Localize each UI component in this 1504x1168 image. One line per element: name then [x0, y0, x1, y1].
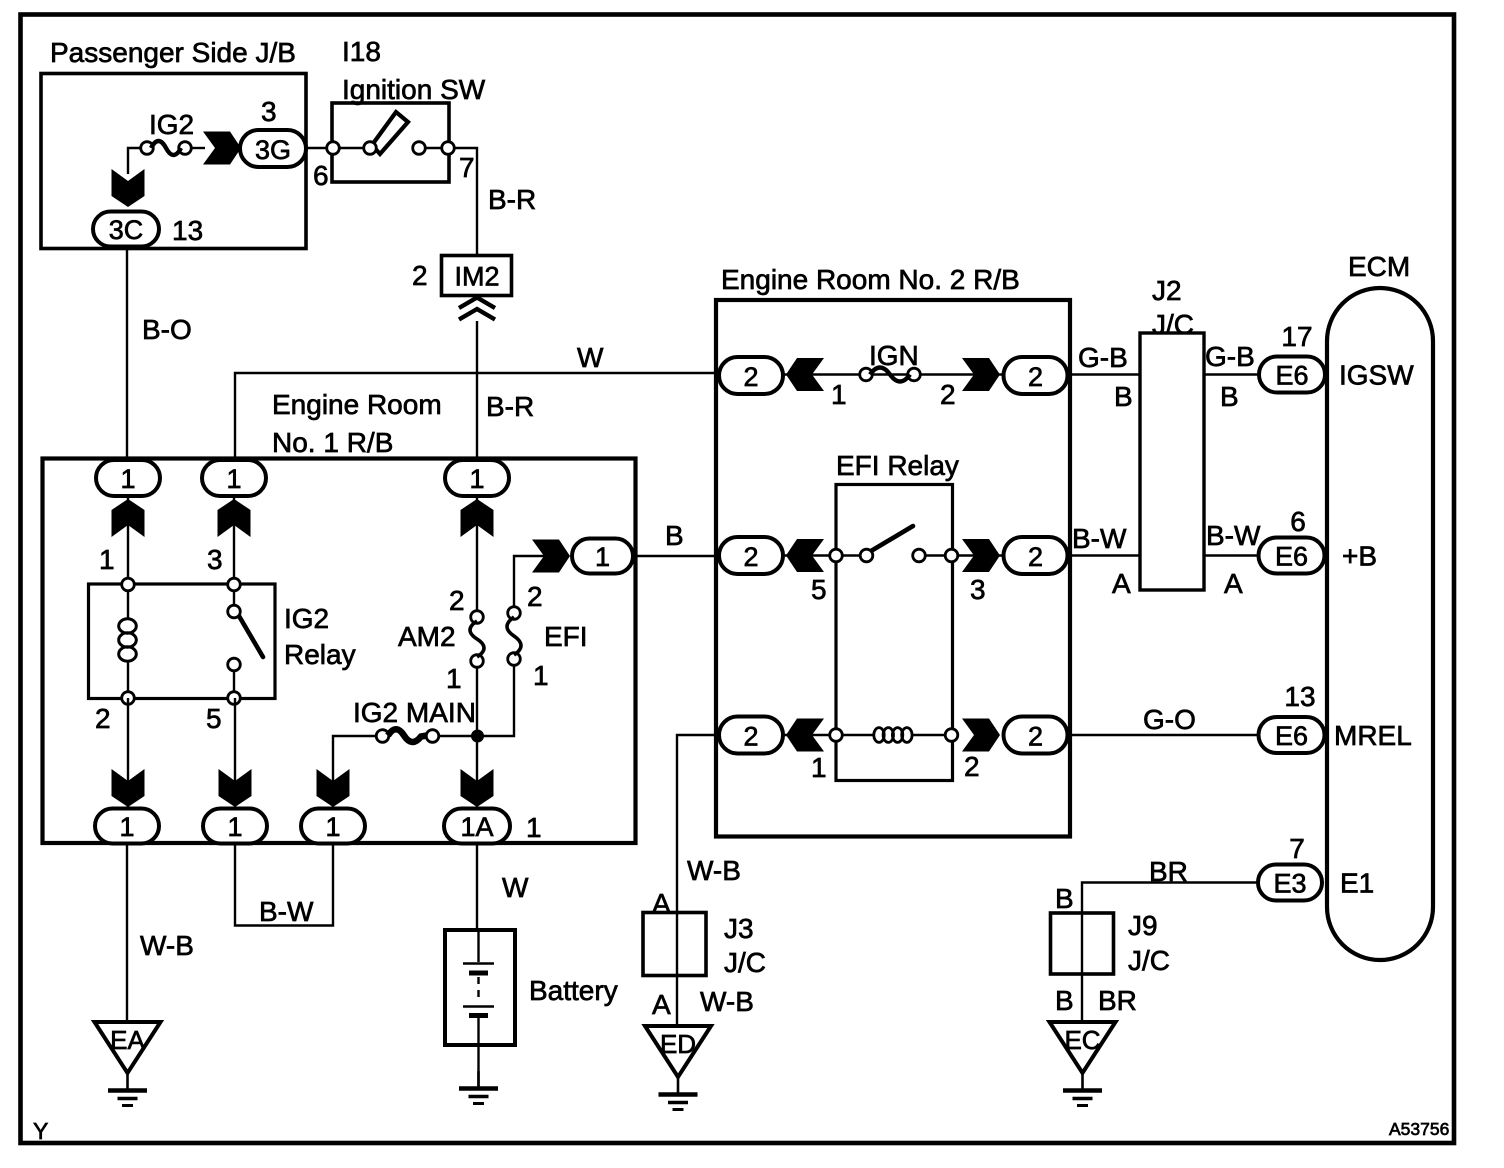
svg-text:ED: ED: [660, 1029, 696, 1059]
arrow down cavity b1: [112, 769, 145, 807]
svg-text:3: 3: [207, 544, 223, 575]
cavity 1 top mid: [202, 460, 266, 496]
arrow up into cavity2: [218, 499, 251, 537]
svg-text:IG2 MAIN: IG2 MAIN: [353, 697, 476, 728]
Engine Room No.1 R/B box: [43, 459, 636, 844]
svg-text:EFI Relay: EFI Relay: [836, 450, 959, 481]
wire relay pin2 down to cavity: [127, 698, 129, 808]
svg-text:1: 1: [227, 812, 242, 842]
arrow up into cavity1: [112, 499, 145, 537]
connector cavity 3C: [93, 212, 159, 247]
arrow left row1: [786, 358, 824, 391]
cavity 1 top left: [96, 460, 160, 496]
svg-text:IM2: IM2: [454, 262, 499, 292]
svg-text:1: 1: [469, 464, 484, 494]
svg-text:W-B: W-B: [687, 855, 741, 886]
cavity 2 row3 right: [1004, 717, 1068, 754]
svg-text:7: 7: [1289, 833, 1305, 864]
relay contact a: [860, 549, 873, 562]
fuse IG2: [141, 142, 154, 155]
terminal E6 MREL: [1259, 717, 1325, 753]
svg-text:3G: 3G: [255, 135, 291, 165]
svg-text:MREL: MREL: [1334, 720, 1412, 751]
wire fuse EFI down to junction: [483, 665, 514, 736]
svg-text:1: 1: [226, 464, 241, 494]
svg-text:E6: E6: [1275, 542, 1308, 572]
wire BR E1 to J9: [1082, 883, 1258, 1027]
svg-text:Engine Room No. 2 R/B: Engine Room No. 2 R/B: [721, 264, 1020, 295]
battery box: [445, 930, 515, 1045]
svg-text:E6: E6: [1275, 361, 1308, 391]
wire W to battery: [476, 844, 478, 930]
wire cavity2 to relay pin3: [233, 496, 235, 586]
arrow down cavity b2: [219, 769, 252, 807]
svg-text:EC: EC: [1064, 1025, 1100, 1055]
arrow left row2: [786, 539, 824, 572]
relay coil wire bottom: [127, 661, 129, 694]
arrow down cavity b3: [317, 769, 350, 807]
svg-text:E1: E1: [1340, 868, 1374, 899]
svg-text:B: B: [665, 520, 684, 551]
svg-text:1: 1: [120, 464, 135, 494]
wire G-O row3 to MREL: [1069, 734, 1260, 736]
cavity 1 right side: [572, 539, 633, 574]
svg-text:E3: E3: [1273, 869, 1306, 899]
wire row1 inside: [783, 373, 1069, 375]
wire W-B to EA: [126, 844, 128, 1022]
svg-text:A53756: A53756: [1389, 1119, 1449, 1139]
connector arrow into 3C: [112, 169, 145, 207]
svg-text:6: 6: [1290, 506, 1306, 537]
cavity 1 top right: [445, 460, 509, 496]
relay contact upper: [228, 605, 241, 618]
svg-text:Relay: Relay: [284, 639, 356, 670]
terminal E6 IGSW: [1259, 357, 1325, 393]
svg-text:B-O: B-O: [142, 314, 192, 345]
wire cavity3 to fuse AM2: [476, 496, 478, 612]
svg-text:5: 5: [811, 574, 827, 605]
svg-text:2: 2: [964, 751, 980, 782]
svg-text:1: 1: [526, 812, 542, 843]
wire row1 to J2: [1069, 373, 1139, 375]
wire fuse to arrow: [191, 147, 205, 149]
svg-text:Ignition SW: Ignition SW: [342, 74, 486, 105]
svg-text:5: 5: [206, 703, 222, 734]
svg-text:+B: +B: [1342, 541, 1377, 572]
svg-text:2: 2: [1028, 721, 1043, 751]
ground ED symbol: [677, 1077, 680, 1093]
ground EA symbol: [126, 1073, 129, 1089]
svg-text:1: 1: [811, 752, 827, 783]
ground EC symbol: [1081, 1073, 1084, 1089]
relay coil IG2: [119, 619, 137, 633]
wire W-B from row3 to J3: [677, 735, 721, 1026]
wire J2 to IGSW: [1204, 373, 1260, 375]
wire J2 to +B: [1204, 554, 1260, 556]
svg-text:1: 1: [595, 542, 610, 572]
arrow right row3: [962, 719, 1000, 752]
svg-text:2: 2: [743, 542, 758, 572]
Engine Room No.2 R/B box: [716, 300, 1070, 837]
svg-text:3C: 3C: [109, 215, 144, 245]
cavity 2 row1 right: [1004, 357, 1068, 394]
svg-text:1: 1: [99, 544, 115, 575]
svg-text:2: 2: [743, 362, 758, 392]
svg-text:2: 2: [449, 585, 465, 616]
cavity 2 row1 left: [719, 357, 783, 394]
wire row3 left: [783, 734, 836, 736]
svg-text:B-W: B-W: [1072, 523, 1127, 554]
svg-text:W-B: W-B: [140, 930, 194, 961]
relay pin2 terminal: [122, 692, 135, 705]
cavity 1 bottom a: [95, 809, 159, 844]
svg-text:I18: I18: [342, 36, 381, 67]
battery internal wire top: [477, 930, 479, 962]
wire IG2 fuse to node down: [128, 148, 147, 174]
svg-text:EFI: EFI: [544, 621, 588, 652]
relay switch wire top: [233, 590, 235, 606]
wire cavity1-right to No2 R/B: [633, 555, 719, 557]
cavity 2 row3 left: [719, 717, 783, 754]
arrow right row1: [962, 358, 1000, 391]
svg-text:BR: BR: [1098, 985, 1137, 1016]
svg-text:B-W: B-W: [1206, 520, 1261, 551]
svg-text:G-B: G-B: [1205, 341, 1255, 372]
arrow right row2: [962, 539, 1000, 572]
svg-text:W-B: W-B: [700, 986, 754, 1017]
connector chevrons below IM2: [459, 298, 495, 320]
junction connector J2 box: [1140, 333, 1204, 590]
ignition switch I18 box: [332, 103, 449, 182]
svg-text:B-R: B-R: [486, 391, 534, 422]
svg-text:2: 2: [940, 379, 956, 410]
svg-text:J2: J2: [1152, 275, 1182, 306]
svg-text:2: 2: [95, 703, 111, 734]
svg-text:W: W: [502, 872, 529, 903]
svg-text:2: 2: [1028, 542, 1043, 572]
svg-text:7: 7: [459, 152, 475, 183]
junction connector J3 box: [643, 913, 706, 976]
svg-text:ECM: ECM: [1348, 251, 1410, 282]
relay coil pin left: [830, 729, 843, 742]
svg-text:17: 17: [1281, 321, 1312, 352]
wire fuse EFI up to arrow: [514, 556, 545, 607]
battery ground symbol: [477, 1071, 480, 1087]
relay pin1 terminal: [122, 578, 135, 591]
arrow into cavity B: [532, 540, 570, 573]
wire fuse AM2 to junction and cavity 1A: [476, 667, 478, 808]
relay contact b: [913, 549, 926, 562]
svg-text:E6: E6: [1275, 721, 1308, 751]
svg-text:2: 2: [412, 260, 428, 291]
svg-text:2: 2: [743, 721, 758, 751]
svg-text:1A: 1A: [460, 812, 493, 842]
svg-text:13: 13: [172, 215, 203, 246]
wire link to left cavity: [333, 736, 376, 808]
relay pin5 terminal r2: [830, 549, 843, 562]
battery plate short top: [469, 971, 488, 976]
connector IM2 box: [442, 256, 512, 296]
relay EFI lever: [871, 526, 913, 551]
svg-text:J/C: J/C: [1128, 945, 1170, 976]
svg-text:2: 2: [1028, 362, 1043, 392]
fusible link IG2 MAIN: [376, 730, 389, 743]
arrow up into cavity3: [461, 499, 494, 537]
svg-text:Passenger Side J/B: Passenger Side J/B: [50, 37, 296, 68]
svg-text:2: 2: [527, 581, 543, 612]
svg-text:1: 1: [533, 660, 549, 691]
wire coil segs: [842, 734, 874, 736]
relay contact lower: [228, 658, 241, 671]
svg-text:AM2: AM2: [398, 621, 456, 652]
battery dashed link: [477, 977, 479, 1003]
svg-text:A: A: [1112, 568, 1131, 599]
ground ED triangle: [645, 1026, 711, 1077]
svg-text:IG2: IG2: [149, 109, 194, 140]
switch fixed contact: [413, 142, 426, 155]
svg-text:A: A: [652, 989, 671, 1020]
svg-text:1: 1: [325, 812, 340, 842]
svg-text:3: 3: [261, 96, 277, 127]
relay pin5 terminal: [228, 692, 241, 705]
svg-text:B: B: [1055, 883, 1074, 914]
svg-text:6: 6: [313, 160, 329, 191]
wire row2 left: [783, 554, 836, 556]
ground EC triangle: [1050, 1022, 1116, 1073]
terminal E3 E1: [1258, 865, 1322, 901]
svg-text:B: B: [1055, 985, 1074, 1016]
svg-text:B-R: B-R: [488, 184, 536, 215]
svg-text:IGN: IGN: [869, 340, 919, 371]
ECM box: [1327, 288, 1433, 960]
relay IG2 box: [89, 584, 276, 699]
svg-text:EA: EA: [110, 1025, 145, 1055]
ignition switch lever: [372, 112, 408, 154]
svg-text:Y: Y: [33, 1118, 48, 1144]
wire link to junction: [439, 735, 472, 737]
wire pin7 internal: [424, 147, 448, 149]
svg-text:IGSW: IGSW: [1339, 360, 1414, 391]
relay pin3 terminal: [228, 578, 241, 591]
arrow left row3: [786, 719, 824, 752]
cavity 2 row2 left: [719, 537, 783, 574]
terminal E6 +B: [1259, 538, 1325, 574]
wire B-W loop: [235, 844, 333, 926]
svg-text:1: 1: [119, 812, 134, 842]
junction connector J9 box: [1051, 913, 1114, 974]
svg-text:J3: J3: [724, 913, 754, 944]
svg-text:1: 1: [446, 663, 462, 694]
Passenger Side J/B box: [41, 74, 306, 249]
svg-text:IG2: IG2: [284, 603, 329, 634]
wire relay switch segs: [842, 554, 861, 556]
fuse EFI: [508, 607, 521, 620]
battery plate short bottom: [469, 1013, 488, 1018]
wire W horizontal to No2 R/B: [235, 373, 719, 461]
cavity 1 bottom c: [301, 809, 365, 844]
wire B-O from 3C to R/B: [126, 246, 128, 461]
battery plate long bottom: [463, 1005, 494, 1008]
svg-text:G-B: G-B: [1078, 342, 1128, 373]
relay switch wire bottom: [233, 670, 235, 694]
svg-text:B: B: [1114, 381, 1133, 412]
svg-text:W: W: [577, 342, 604, 373]
wire cavity1 to relay pin1: [127, 496, 129, 586]
connector arrow into 3G: [203, 132, 241, 165]
wire pin7 to IM2: [454, 148, 477, 256]
cavity 2 row2 right: [1004, 537, 1068, 574]
cavity 1 bottom b: [203, 809, 267, 844]
fuse IGN: [860, 368, 873, 381]
battery plate long top: [463, 962, 494, 965]
svg-text:3: 3: [970, 574, 986, 605]
svg-text:J/C: J/C: [724, 947, 766, 978]
relay EFI box: [836, 485, 953, 781]
svg-text:J9: J9: [1128, 910, 1158, 941]
svg-text:1: 1: [831, 379, 847, 410]
fuse AM2: [471, 611, 484, 624]
junction node: [471, 730, 484, 743]
cavity 1A bottom: [444, 809, 510, 844]
svg-text:BR: BR: [1149, 856, 1188, 887]
connector cavity 3G: [240, 130, 306, 167]
arrow down cavity 1A: [461, 769, 494, 807]
relay coil pin right: [945, 729, 958, 742]
relay EFI coil: [874, 728, 884, 743]
svg-text:A: A: [1224, 568, 1243, 599]
svg-text:G-O: G-O: [1143, 704, 1196, 735]
wire row2 to J2: [1069, 554, 1139, 556]
svg-text:A: A: [652, 888, 671, 919]
switch movable contact: [364, 142, 377, 155]
relay pin3 terminal r2: [945, 549, 958, 562]
svg-text:No. 1 R/B: No. 1 R/B: [272, 427, 393, 458]
relay coil wire top: [127, 590, 129, 618]
wire relay pin5 down to cavity: [234, 698, 236, 808]
wire B-R from IM2 to R/B: [476, 321, 478, 461]
relay IG2 lever: [239, 616, 263, 657]
svg-text:13: 13: [1284, 681, 1315, 712]
switch pin 7 terminal: [442, 142, 455, 155]
svg-text:B: B: [1220, 381, 1239, 412]
svg-text:Engine Room: Engine Room: [272, 389, 442, 420]
battery wire to ground: [477, 1018, 479, 1087]
wire 3G to pin 6: [306, 147, 328, 149]
switch pin 6 terminal: [327, 142, 340, 155]
svg-text:Battery: Battery: [529, 975, 618, 1006]
ground EA triangle: [95, 1022, 161, 1073]
wire pin6 internal: [333, 147, 364, 149]
svg-text:B-W: B-W: [259, 896, 314, 927]
